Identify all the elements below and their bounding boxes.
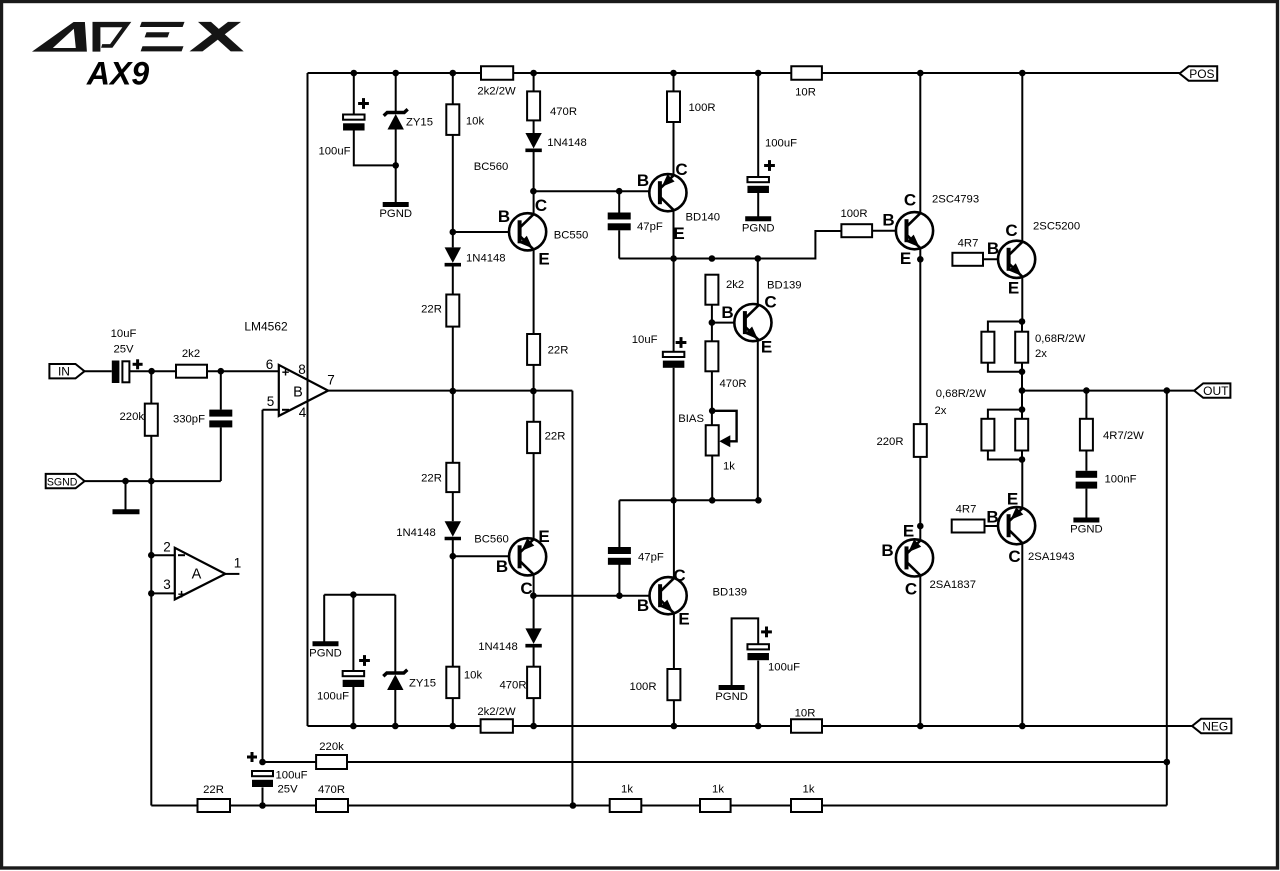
wire ZY15 bottom to NEG — [394, 690, 396, 726]
transistor 2SA1837 — [896, 539, 933, 576]
resistor 10R bottom rail — [791, 719, 822, 733]
wire 2k2 to pin6 — [207, 370, 279, 372]
node SGND gnd stub — [122, 478, 129, 485]
transistor 2SC4793 — [896, 212, 933, 249]
wire 2k2 to BD139t base — [711, 305, 713, 323]
capacitor 47pF top — [608, 213, 631, 231]
svg-text:B: B — [881, 541, 893, 560]
node opamp out col453 — [450, 388, 457, 395]
svg-text:2x: 2x — [1035, 348, 1047, 360]
svg-text:BIAS: BIAS — [678, 413, 704, 425]
wire col453 bottom — [452, 698, 454, 726]
plus 100uF BR — [761, 627, 772, 638]
wire 330pF column bottom — [220, 427, 222, 481]
svg-text:22R: 22R — [421, 473, 442, 485]
ground signal-ground bar — [113, 509, 140, 514]
wire BD139t E down — [757, 341, 759, 501]
wire 100R driver to base — [872, 230, 906, 232]
wire 2SC5200 C up — [1021, 73, 1023, 242]
svg-text:SGND: SGND — [47, 476, 78, 488]
node OUT junction — [1019, 387, 1026, 394]
node y500 right corner — [755, 497, 762, 504]
resistor 4R7/2W Zobel — [1080, 419, 1093, 451]
wire E-line — [619, 231, 841, 259]
resistor 470R VAS — [705, 341, 718, 371]
trimmer 1k BIAS wiper — [712, 411, 736, 448]
svg-text:1N4148: 1N4148 — [547, 137, 587, 149]
node 2SC4793 C rail — [917, 70, 924, 77]
wire OUT line — [1022, 390, 1194, 392]
node SGND 220k — [148, 478, 155, 485]
resistor 2k2/2W bottom rail — [481, 719, 513, 733]
op-amp U1A triangle — [175, 548, 226, 600]
svg-text:47pF: 47pF — [638, 552, 664, 564]
wire PGND-BL drop — [323, 595, 325, 642]
svg-text:C: C — [904, 191, 916, 210]
svg-text:8: 8 — [298, 362, 306, 377]
svg-text:10uF: 10uF — [632, 334, 658, 346]
svg-text:1k: 1k — [723, 461, 735, 473]
resistor 470R feedback — [316, 799, 348, 812]
wire pin8-4 through triangle — [307, 365, 309, 416]
wire 470R to D1 — [533, 120, 535, 133]
resistor 1k second — [700, 799, 731, 812]
svg-text:22R: 22R — [421, 304, 442, 316]
svg-text:4R7: 4R7 — [956, 504, 977, 516]
wire 4R7 to 2SC5200 base — [983, 258, 1009, 260]
wire 2SC5200 E down — [1021, 277, 1023, 322]
wire 100uF BL column — [352, 595, 354, 671]
node Zobel tee — [1083, 387, 1090, 394]
wire BD139t base — [712, 322, 745, 324]
resistor 100R top — [667, 91, 680, 122]
diode 1N4148 D3 — [445, 521, 461, 538]
wire 470R VAS — [711, 323, 713, 342]
svg-text:E: E — [678, 610, 689, 629]
wire 220R column — [919, 259, 921, 424]
resistor 10k top — [446, 104, 459, 135]
wire IN to cap — [85, 370, 112, 372]
node BIAS wiper — [709, 408, 716, 415]
wire 100R bottom to NEG — [673, 700, 675, 726]
svg-text:3: 3 — [163, 577, 171, 592]
resistor 220R — [914, 424, 927, 457]
svg-text:PGND: PGND — [742, 222, 775, 234]
wire 100uF BR column — [757, 661, 759, 727]
capacitor 100nF Zobel — [1076, 471, 1098, 489]
svg-text:2: 2 — [163, 540, 171, 555]
wire 10uF mid bottom — [673, 368, 675, 501]
svg-text:1k: 1k — [712, 784, 724, 796]
svg-text:10R: 10R — [795, 86, 816, 98]
wire 0R68 top pair bracket bottom — [988, 363, 1022, 372]
node BC550 collector — [530, 188, 537, 195]
capacitor 47pF bottom — [608, 547, 631, 565]
wire 10uF mid column — [673, 259, 675, 352]
svg-text:4R7: 4R7 — [958, 238, 979, 250]
node 100uF-TR rail — [755, 70, 762, 77]
wire 0R68 top pair bracket top — [988, 322, 1022, 332]
svg-text:100uF: 100uF — [276, 770, 308, 782]
resistor 22R a — [446, 295, 459, 327]
svg-text:E: E — [1008, 279, 1019, 298]
resistor 100R driver — [841, 224, 872, 237]
opamp B minus — [282, 409, 289, 411]
svg-text:AX9: AX9 — [86, 56, 149, 92]
transistor BD140 — [649, 174, 686, 211]
svg-text:100R: 100R — [840, 208, 867, 220]
wire BC560 base — [453, 555, 520, 557]
node 0R68 bottom pair bottom — [1019, 456, 1026, 463]
svg-text:B: B — [987, 239, 999, 258]
svg-text:100R: 100R — [629, 681, 656, 693]
capacitor 100uF bottom-right — [747, 644, 769, 660]
svg-text:4R7/2W: 4R7/2W — [1103, 430, 1144, 442]
transistor BC550 — [509, 213, 546, 250]
svg-text:2SA1943: 2SA1943 — [1028, 551, 1074, 563]
wire BC550 E to 22R b — [533, 250, 535, 334]
resistor 4R7 top — [952, 253, 983, 266]
wire BC550 base — [453, 231, 520, 233]
svg-text:470R: 470R — [720, 378, 747, 390]
wire 2SC4793 C — [919, 73, 921, 213]
wire col534 top — [533, 73, 535, 91]
terminal SGND — [46, 474, 85, 488]
resistor 1k third — [791, 799, 822, 812]
wire 220k to SGND line — [150, 436, 152, 806]
svg-text:220R: 220R — [876, 436, 903, 448]
ground PGND bottom-right — [719, 685, 745, 690]
svg-text:B: B — [637, 171, 649, 190]
svg-text:10k: 10k — [466, 116, 485, 128]
node BD139t base — [709, 319, 716, 326]
node pin2 tee — [148, 552, 155, 559]
wire opamp B output — [328, 390, 572, 392]
svg-text:2SA1837: 2SA1837 — [930, 579, 976, 591]
wire 22R c to D3 — [452, 492, 454, 521]
node input divider — [148, 368, 155, 375]
svg-text:C: C — [675, 160, 687, 179]
svg-text:E: E — [538, 527, 549, 546]
wire col453 top — [452, 73, 454, 104]
transistor BD139 bottom — [650, 577, 687, 614]
resistor 0.68R/2W top-left — [981, 332, 994, 363]
wire D4 to 470R bottom — [533, 646, 535, 667]
svg-text:10k: 10k — [464, 670, 483, 682]
wire BC560 C to BD139b base — [533, 595, 652, 597]
node BC560 base tee — [450, 553, 457, 560]
svg-text:25V: 25V — [113, 344, 134, 356]
svg-text:7: 7 — [327, 373, 335, 388]
svg-text:B: B — [986, 508, 998, 527]
terminal IN — [49, 364, 84, 378]
wire 0R68 top pair right stub top — [1021, 322, 1023, 332]
svg-text:C: C — [673, 566, 685, 585]
svg-text:B: B — [882, 211, 894, 230]
transistor BD139 top — [734, 304, 771, 341]
wire BD139t C up — [757, 259, 759, 306]
APEX logo — [32, 22, 244, 52]
transistor BC560 bottom — [509, 538, 546, 575]
svg-text:LM4562: LM4562 — [244, 320, 288, 334]
wire 0R68 bottom pair right stub bottom — [1021, 451, 1023, 460]
node BC560 collector — [530, 592, 537, 599]
wire col453 10k to diode — [452, 135, 454, 248]
svg-text:C: C — [535, 196, 547, 215]
svg-text:+: + — [178, 587, 186, 602]
svg-text:470R: 470R — [318, 784, 345, 796]
terminal NEG — [1192, 719, 1231, 733]
svg-text:1k: 1k — [803, 784, 815, 796]
transistor 2SC5200 — [998, 241, 1035, 278]
wire 100R to BD140 C — [673, 122, 675, 175]
wire 100uF BR to PGND jog — [732, 618, 759, 685]
wire pin5 feedback column — [262, 410, 264, 762]
resistor 470R top — [527, 91, 540, 120]
svg-text:1N4148: 1N4148 — [478, 641, 518, 653]
wire gnd stub — [125, 481, 127, 510]
wire y500 line — [619, 499, 758, 501]
wire 2SA1943 C down — [1021, 544, 1023, 726]
node 2SA1837 E — [917, 523, 924, 530]
wire 220R to 2SA1837 E node — [919, 457, 921, 526]
wire NEG rail — [308, 725, 1193, 727]
wire cap to 2k2 — [129, 370, 176, 372]
resistor 470R bottom — [527, 667, 540, 698]
svg-text:E: E — [900, 249, 911, 268]
wire BC560 C down — [533, 575, 535, 628]
svg-text:PGND: PGND — [715, 691, 748, 703]
svg-text:PGND: PGND — [309, 647, 342, 659]
resistor 2k2 VAS — [705, 275, 718, 305]
node 100uF top rail — [351, 70, 358, 77]
svg-text:BD139: BD139 — [713, 587, 748, 599]
svg-text:1N4148: 1N4148 — [466, 253, 506, 265]
node fb cap top — [259, 759, 266, 766]
wire 22R a to opamp out node — [452, 327, 454, 463]
node ZY15 bottom NEG rail — [392, 723, 399, 730]
svg-text:6: 6 — [266, 357, 274, 372]
wire opamp out to 1k line — [571, 391, 573, 806]
svg-text:E: E — [1007, 490, 1018, 509]
svg-text:A: A — [192, 567, 202, 583]
wire col534 bottom — [533, 698, 535, 726]
resistor 22R b — [527, 334, 540, 365]
resistor 10R top rail — [791, 66, 822, 80]
node opamp-out 1k line — [570, 802, 577, 809]
svg-text:PGND: PGND — [379, 208, 412, 220]
zener diode ZY15 bottom — [383, 670, 407, 690]
node y500 10uF-BD139b C — [670, 497, 677, 504]
resistor 2k2/2W top rail — [481, 66, 513, 80]
svg-text:2k2: 2k2 — [726, 279, 744, 291]
ground PGND top-right — [745, 216, 771, 221]
wire 100nF to PGND — [1085, 489, 1087, 518]
node 2SC4793 E — [917, 256, 924, 263]
svg-text:BC550: BC550 — [554, 230, 589, 242]
svg-text:B: B — [293, 385, 303, 401]
svg-text:100R: 100R — [689, 102, 716, 114]
svg-text:1: 1 — [234, 556, 242, 571]
wire pin1 stub — [225, 573, 239, 575]
wire POS rail — [308, 72, 1180, 74]
op-amp U1B triangle — [279, 365, 328, 416]
resistor 0.68R/2W bottom-right — [1015, 419, 1028, 451]
wire 0R68 bottom pair bracket top — [988, 410, 1022, 419]
node 2SA1837 C NEG — [917, 723, 924, 730]
wire 100uF top-left to node — [354, 131, 396, 166]
svg-text:220k: 220k — [319, 741, 344, 753]
wire zener ZY15 top column — [395, 73, 397, 112]
svg-text:C: C — [1005, 221, 1017, 240]
svg-text:2x: 2x — [935, 405, 947, 417]
node fb cap bottom — [259, 802, 266, 809]
wire left supply loop vertical (op-amp pins 8-4) — [307, 73, 309, 726]
resistor 22R c — [446, 463, 459, 492]
node E-line 2k2 — [709, 255, 716, 262]
svg-text:100uF: 100uF — [318, 146, 350, 158]
svg-text:1k: 1k — [621, 784, 633, 796]
svg-text:C: C — [905, 580, 917, 599]
resistor 1k first — [610, 799, 642, 812]
capacitor 10uF/25V input — [112, 361, 130, 384]
wire 2SC4793 E down — [919, 249, 921, 260]
wire 4R7/2W column — [1085, 391, 1087, 419]
wire pin3 — [151, 592, 175, 594]
node y500 BIAS — [709, 497, 716, 504]
svg-text:BD140: BD140 — [686, 212, 721, 224]
svg-text:100uF: 100uF — [317, 691, 349, 703]
wire 100uF BL to NEG — [352, 687, 354, 726]
wire D2 to 22R — [452, 265, 454, 295]
svg-text:10R: 10R — [795, 708, 816, 720]
capacitor 100uF bottom-left — [343, 671, 365, 687]
plus 10uF mid — [676, 337, 687, 348]
node 2SC5200 C rail — [1019, 70, 1026, 77]
svg-text:BD139: BD139 — [767, 280, 802, 292]
svg-text:PGND: PGND — [1070, 524, 1103, 536]
plus 100uF BL — [359, 655, 370, 666]
svg-text:5: 5 — [267, 394, 275, 409]
svg-text:2SC5200: 2SC5200 — [1033, 221, 1080, 233]
wire 220k column — [150, 371, 152, 403]
svg-text:470R: 470R — [499, 680, 526, 692]
wire 2SA1837 C down — [919, 577, 921, 727]
resistor 0.68R/2W top-right — [1015, 332, 1028, 363]
plus input cap — [133, 359, 143, 369]
svg-text:B: B — [498, 207, 510, 226]
wire 47pF bottom column — [618, 500, 620, 547]
svg-text:B: B — [496, 557, 508, 576]
node feedback 220k tee — [1164, 759, 1171, 766]
wire bottom PGND net horizontal — [324, 594, 395, 596]
wire 0R68 bottom pair bracket bottom — [988, 451, 1022, 460]
svg-text:E: E — [903, 522, 914, 541]
wire fb cap to 1k line — [262, 787, 264, 805]
svg-text:B: B — [637, 596, 649, 615]
ground PGND top-left — [383, 202, 409, 207]
node C-line 47pF — [616, 592, 623, 599]
plus 100uF 25V fb — [247, 752, 257, 762]
wire 0R68 top pair right stub bottom — [1021, 363, 1023, 372]
svg-text:330pF: 330pF — [173, 414, 205, 426]
diode 1N4148 D4 — [525, 628, 541, 645]
node 100R-top rail — [670, 70, 677, 77]
wire BIAS to y500 line — [711, 456, 713, 501]
wire ZY15 bottom column — [394, 595, 396, 673]
terminal OUT — [1194, 383, 1230, 397]
node col453 NEG rail — [450, 723, 457, 730]
svg-text:BC560: BC560 — [474, 161, 509, 173]
svg-text:2SC4793: 2SC4793 — [932, 194, 979, 206]
wire D3 to BC560 base tee — [452, 539, 454, 667]
capacitor 100uF/25V feedback — [252, 771, 273, 787]
wire Zobel to 100nF — [1085, 451, 1087, 471]
svg-text:BC560: BC560 — [474, 534, 509, 546]
svg-text:22R: 22R — [548, 345, 569, 357]
wire 47pF bottom to C-line — [618, 565, 620, 596]
wire BD140 E to E-line — [673, 211, 675, 259]
wire 470R to BIAS node — [711, 371, 713, 425]
wire pin5 stub — [263, 409, 279, 411]
svg-text:ZY15: ZY15 — [409, 678, 436, 690]
plus 100uF top-left — [358, 98, 369, 109]
node 2SA1943 C NEG — [1019, 723, 1026, 730]
svg-text:25V: 25V — [278, 784, 299, 796]
node 330pF top — [218, 368, 225, 375]
svg-text:47pF: 47pF — [637, 221, 663, 233]
wire 330pF column top — [220, 371, 222, 409]
svg-text:220k: 220k — [120, 411, 145, 423]
wire BD139b E down — [673, 614, 675, 670]
resistor 2k2 input — [176, 365, 207, 378]
node pin3 tee — [148, 590, 155, 597]
resistor 220k input — [145, 404, 158, 436]
svg-text:+: + — [282, 365, 290, 380]
node 100uF-BR NEG rail — [755, 723, 762, 730]
wire 100uF top-left column — [353, 73, 355, 115]
wire 47pF top column — [618, 191, 620, 212]
wire 1k line — [151, 805, 1167, 807]
svg-text:IN: IN — [58, 365, 70, 379]
node bottom 100uF tee — [350, 591, 357, 598]
resistor 10k bottom — [446, 667, 459, 698]
node col534 NEG rail — [530, 723, 537, 730]
node 100uF BL NEG rail — [350, 723, 357, 730]
svg-text:2k2/2W: 2k2/2W — [477, 706, 516, 718]
trimmer 1k BIAS body — [706, 425, 719, 455]
node zener-cap top-left — [392, 162, 399, 169]
capacitor 10uF mid — [663, 352, 685, 368]
svg-text:2k2: 2k2 — [182, 348, 200, 360]
resistor 22R feedback — [198, 799, 231, 812]
svg-text:E: E — [673, 224, 684, 243]
svg-text:100nF: 100nF — [1105, 474, 1137, 486]
node BC550 base tee — [450, 229, 457, 236]
node ZY15 top rail — [392, 70, 399, 77]
wire 2SA1943 E up — [1021, 460, 1023, 508]
svg-text:0,68R/2W: 0,68R/2W — [1035, 333, 1086, 345]
wire SGND line — [85, 480, 221, 482]
node E-line BD140 — [670, 255, 677, 262]
wire pin2 — [151, 554, 175, 556]
capacitor 330pF — [209, 410, 232, 428]
wire 100R top column — [673, 73, 675, 91]
wire 2SA1837 E up — [919, 526, 921, 540]
node 47pF-top tee — [616, 188, 623, 195]
capacitor 100uF top-left — [343, 115, 365, 131]
ground PGND Zobel — [1073, 518, 1099, 523]
